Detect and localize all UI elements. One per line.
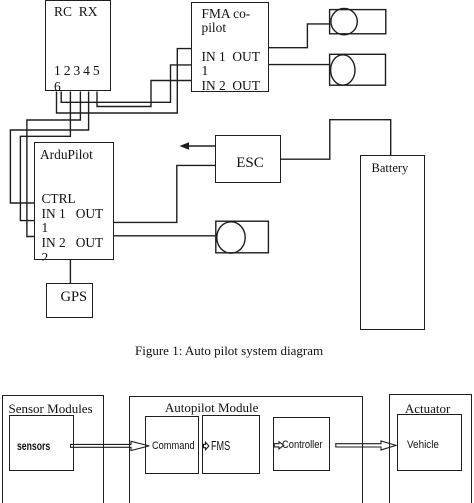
wire RC RX pin5 to ArduPilot — [10, 92, 88, 204]
box Command — [145, 416, 199, 474]
label sensors — [17, 439, 50, 453]
open arrow Controller to Actuator — [336, 441, 396, 450]
servo S1 (top right) — [330, 10, 386, 34]
box Vehicle — [397, 414, 462, 471]
wire RC RX pin6 to FMA IN3 — [97, 81, 192, 107]
label pin 6 (clipped) — [54, 79, 64, 91]
wire ArduPilot OUT2 to servo S3 — [114, 235, 217, 237]
wire RC RX pin2 to FMA IN2 — [61, 65, 191, 102]
label FMA IN/OUT (clipped) — [202, 50, 268, 91]
box Autopilot Module — [129, 396, 364, 503]
servo S3 (middle) — [216, 221, 269, 253]
box FMA co-pilot — [191, 2, 269, 92]
label ArduPilot — [40, 148, 93, 163]
open arrow into Controller — [274, 442, 284, 449]
label CTRL IN/OUT (clipped) — [42, 192, 112, 261]
label Actuator — [405, 401, 450, 417]
arrow from ESC pointing left — [187, 145, 215, 147]
wire ArduPilot to GPS — [69, 260, 71, 285]
label pins 1-5 — [54, 63, 99, 78]
box Actuator — [389, 394, 473, 503]
label ESC — [236, 155, 264, 172]
box sensors — [9, 415, 74, 472]
box RC RX — [45, 0, 110, 91]
open arrow into FMS — [204, 442, 209, 449]
open arrow sensors to Command — [71, 441, 150, 450]
box ArduPilot — [34, 142, 114, 260]
label Command — [152, 440, 195, 452]
servo S2 (right) — [330, 54, 386, 85]
wire RC RX pin1 to FMA IN1 — [57, 49, 192, 113]
label Vehicle — [407, 439, 439, 451]
label Controller — [282, 439, 323, 451]
box ESC — [215, 135, 281, 183]
label GPS — [61, 289, 88, 306]
label Sensor Modules — [9, 401, 93, 417]
wire ArduPilot OUT1 to ESC — [114, 165, 216, 222]
caption Figure 1 — [135, 343, 323, 359]
wire FMA to servo S2 — [268, 64, 329, 66]
box Sensor Modules — [2, 395, 104, 503]
wire ESC to Battery — [281, 120, 391, 160]
wire FMA to servo S1 — [268, 24, 329, 48]
wire RC RX pin4 to ArduPilot — [27, 92, 81, 237]
box GPS — [46, 283, 94, 318]
box FMS — [202, 415, 260, 474]
box Controller — [273, 417, 330, 472]
wire RC RX pin3 to ArduPilot — [20, 92, 70, 221]
box Battery — [360, 155, 426, 330]
label RC RX — [54, 4, 98, 19]
label Battery — [372, 161, 409, 176]
label Autopilot Module — [165, 400, 259, 416]
label FMA co-pilot — [202, 7, 251, 36]
label FMS — [211, 438, 230, 453]
